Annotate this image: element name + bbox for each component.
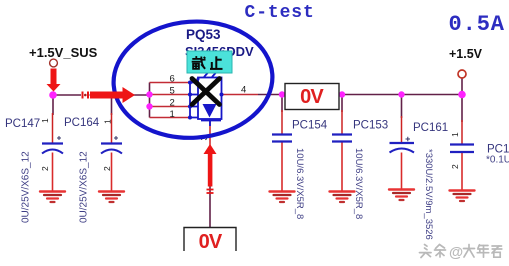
glyph da [464,245,475,258]
svg-text:PC161: PC161 [413,122,448,134]
wire bus vertical at transistor input [149,83,151,118]
wire PC154 drop [281,95,283,191]
svg-text:1: 1 [40,118,50,123]
wire net segment bead to pin bus [90,94,150,96]
svg-text:4: 4 [241,85,246,96]
ground PC153 [330,192,355,203]
svg-text:2: 2 [102,166,112,171]
svg-text:*330U/2.5V/9m_3526: *330U/2.5V/9m_3526 [423,149,434,240]
svg-text:PC153: PC153 [353,120,388,132]
transistor PQ53 mosfet body [190,73,222,127]
wire PC161 drop [401,95,403,189]
wire net +1.5V_SUS horizontal segment left [53,94,81,96]
svg-text:0V: 0V [300,86,324,108]
glyph jun [492,246,502,257]
svg-text:PQ53: PQ53 [186,27,221,42]
glyph tou [420,245,432,258]
svg-text:6: 6 [170,74,175,85]
wire PC153 drop [341,95,343,191]
svg-text:+1.5V: +1.5V [449,47,483,61]
annotation arrow down from +1.5V_SUS [47,69,61,92]
measurement box 0V bottom [184,228,236,254]
ground PC164 [99,192,124,203]
wire +1.5V power stub right [461,79,463,95]
svg-text:10U/6.3V/X5R_8: 10U/6.3V/X5R_8 [294,148,305,219]
ground PC154 [270,192,295,203]
ferrite bead marks on left wire [83,92,89,99]
wire PC147 drop [52,95,55,191]
wire pin4 drain net to +1.5V rail [222,94,463,96]
ground PC161 [389,190,414,201]
svg-text:1: 1 [450,132,460,137]
ground PC15x [450,191,475,202]
junction PC161 [398,91,404,97]
capacitor PC154 [272,120,328,220]
junction +1.5V entry [458,91,466,99]
glyph nian [477,245,488,257]
svg-text:2: 2 [450,164,460,169]
bead marks below up arrow [207,190,214,194]
glyph tiao [435,245,446,258]
glyph jie [192,56,206,69]
capacitor PC147 [5,118,63,223]
svg-text:10U/6.3V/X5R_8: 10U/6.3V/X5R_8 [353,148,364,219]
svg-text:0.5A: 0.5A [449,12,505,37]
svg-text:1: 1 [103,119,113,124]
junction at +1.5V_SUS entry [49,91,57,99]
svg-text:1: 1 [170,109,175,120]
junction PC154 [279,91,285,97]
annotation ellipse around PQ53 [110,16,277,143]
transistor body diode [188,77,224,120]
wire pin rows 6 5 2 1 [150,83,191,118]
svg-text:C-test: C-test [245,3,315,23]
capacitor PC164 [64,117,122,223]
power symbol +1.5V_SUS [29,45,98,67]
capacitor PC161 polarized [390,122,449,240]
svg-text:2: 2 [40,166,50,171]
svg-text:2: 2 [170,98,175,109]
svg-text:+1.5V_SUS: +1.5V_SUS [29,45,98,60]
wire PC164 drop [111,95,113,191]
junction pin5 bus [146,91,152,97]
wire PC158 drop rightmost [461,95,463,190]
svg-text:0V: 0V [199,231,223,253]
power symbol +1.5V [449,47,483,78]
svg-text:PC147: PC147 [5,118,40,130]
svg-text:0U/25V/X6S_12: 0U/25V/X6S_12 [79,151,90,223]
svg-text:*0.1U: *0.1U [486,155,509,166]
glyph zhi [210,56,223,69]
X cross over mosfet [192,79,220,105]
capacitor PC153 [332,120,388,220]
wire gate pin3 drop to 0V probe box [209,121,211,228]
annotation arrow up at gate [204,144,217,187]
svg-text:5: 5 [170,86,175,97]
measurement box 0V top [285,84,339,110]
junction pin2 bus [146,103,152,109]
watermark toutiao da nian jun [420,245,446,258]
junction PC153 [339,91,345,97]
svg-text:0U/25V/X6S_12: 0U/25V/X6S_12 [21,151,32,223]
capacitor PC15x rightmost (label clipped) [450,132,509,169]
annotation arrow right into ellipse [90,87,135,103]
svg-text:PC164: PC164 [64,117,100,129]
svg-text:@: @ [449,245,463,261]
svg-text:PC154: PC154 [292,120,328,132]
transistor pin numbers [170,74,247,141]
ground PC147 [40,192,65,203]
note box cutoff (jie zhi) [187,51,232,73]
